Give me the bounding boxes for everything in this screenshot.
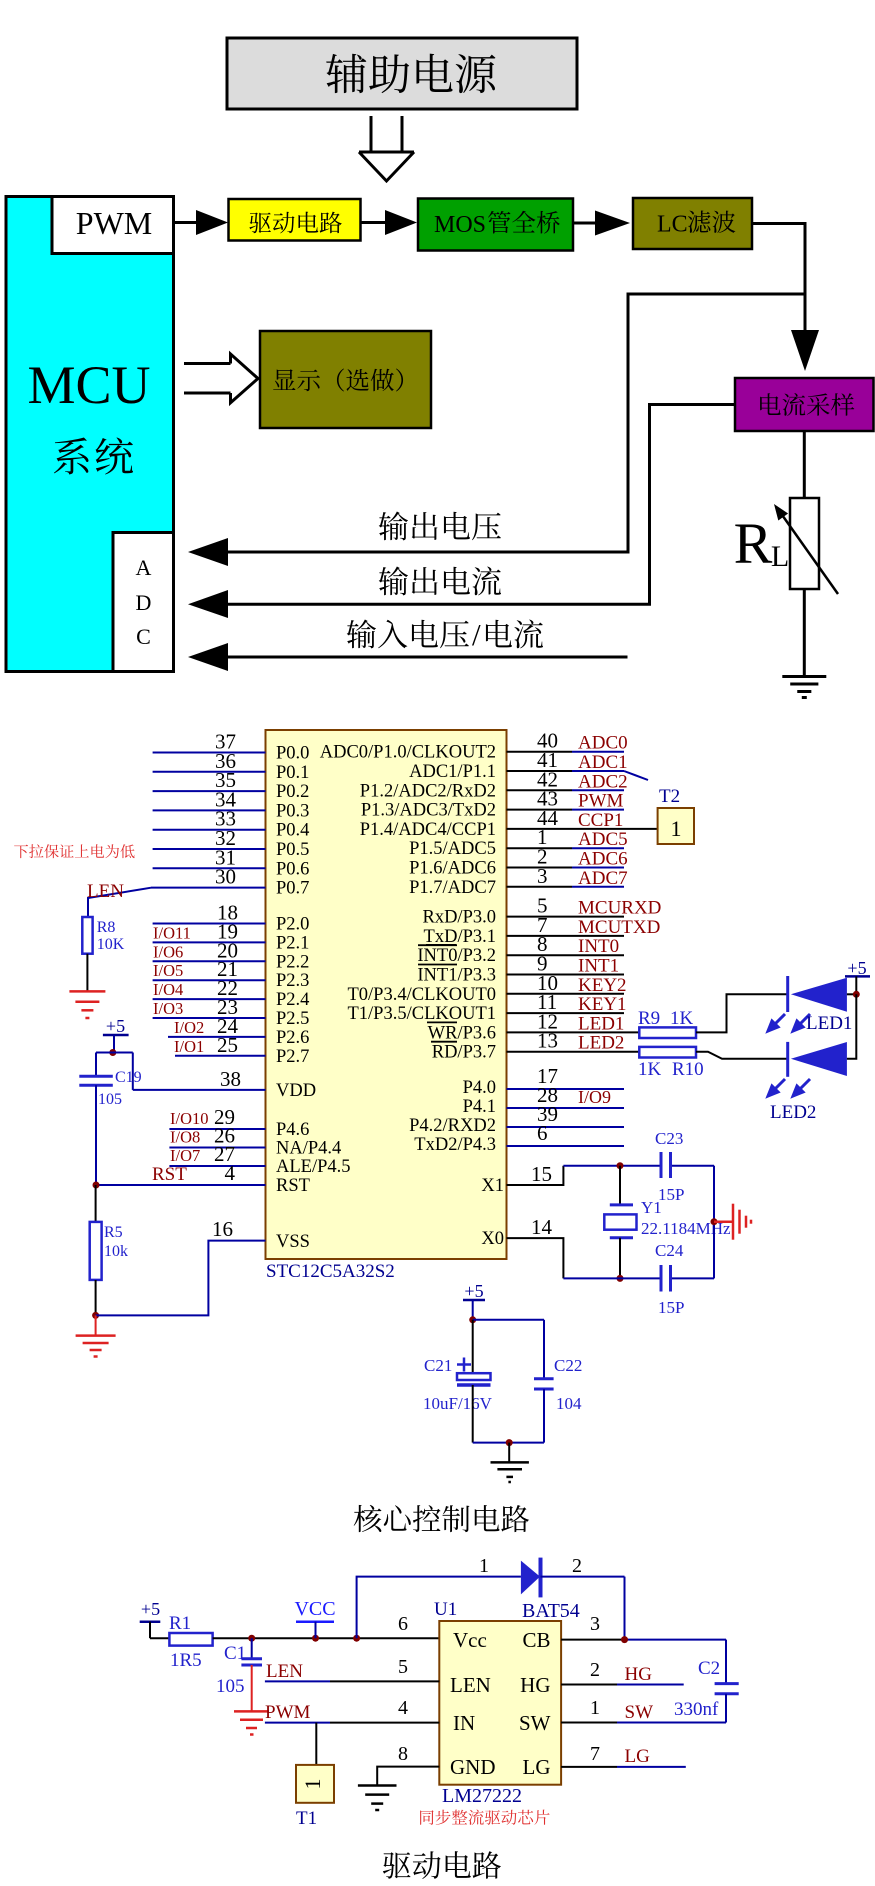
svg-text:P0.1: P0.1	[276, 763, 309, 783]
svg-text:P0.5: P0.5	[276, 840, 309, 860]
block MOS full bridge MOS管全桥	[418, 199, 573, 251]
wire R8 to ground	[86, 954, 88, 991]
svg-text:C1: C1	[224, 1643, 246, 1664]
svg-text:ADC6: ADC6	[578, 849, 628, 870]
wire crystal bottom rail	[563, 1277, 661, 1279]
red note 下拉保证上电为低	[14, 845, 28, 859]
wire LED2 anode to +5 rail	[847, 994, 856, 1059]
pin 21 P2.3 wire	[153, 979, 266, 981]
svg-text:15P: 15P	[658, 1298, 684, 1317]
svg-text:Y1: Y1	[641, 1198, 662, 1217]
block ADC	[113, 533, 174, 672]
red ground below C1	[234, 1710, 269, 1713]
svg-text:P2.2: P2.2	[276, 952, 309, 972]
resistor R8	[82, 917, 92, 954]
svg-text:I/O6: I/O6	[153, 942, 183, 961]
svg-text:+5: +5	[847, 958, 866, 978]
svg-text:Vcc: Vcc	[453, 1628, 487, 1652]
capacitor C24	[660, 1265, 663, 1292]
pin 27 ALE/P4.5 wire	[169, 1165, 265, 1167]
hollow arrow MCU to display	[184, 362, 231, 365]
pin 36 P0.1 wire	[153, 771, 266, 773]
svg-text:MOS: MOS	[434, 212, 486, 238]
svg-text:1: 1	[590, 1697, 600, 1719]
svg-text:I/O11: I/O11	[153, 923, 191, 942]
junction dot ground node	[92, 1312, 99, 1319]
svg-text:I/O10: I/O10	[170, 1109, 209, 1128]
svg-text:38: 38	[220, 1067, 241, 1091]
svg-text:T1/P3.5/CLKOUT1: T1/P3.5/CLKOUT1	[347, 1004, 496, 1024]
svg-text:+5: +5	[106, 1016, 125, 1036]
overline WR	[427, 1021, 457, 1023]
overline INT0	[418, 944, 457, 946]
pin 18 P2.0 wire	[153, 923, 266, 925]
svg-text:LED2: LED2	[770, 1102, 816, 1123]
svg-text:P2.7: P2.7	[276, 1047, 309, 1067]
wire +5 node branches	[96, 1052, 133, 1054]
svg-text:P1.7/ADC7: P1.7/ADC7	[409, 878, 496, 898]
feedback arrow output current 输出电流	[188, 590, 228, 618]
wire RL to ground	[803, 589, 806, 676]
svg-text:R5: R5	[104, 1224, 123, 1241]
wire crystal top rail	[563, 1165, 661, 1167]
wire output voltage	[224, 294, 805, 552]
svg-text:T0/P3.4/CLKOUT0: T0/P3.4/CLKOUT0	[347, 985, 496, 1005]
hollow down arrow from aux power	[370, 116, 373, 152]
svg-text:5: 5	[398, 1656, 408, 1678]
svg-text:P0.7: P0.7	[276, 879, 309, 899]
svg-text:R1: R1	[169, 1613, 191, 1634]
svg-text:1R5: 1R5	[170, 1650, 202, 1671]
svg-text:LED2: LED2	[578, 1033, 624, 1054]
svg-text:14: 14	[531, 1215, 553, 1239]
junction dot C21/C22 ground	[506, 1439, 513, 1446]
svg-text:15P: 15P	[658, 1185, 684, 1204]
solid down arrowhead into current sampling	[791, 330, 819, 371]
svg-text:1: 1	[479, 1555, 489, 1577]
svg-text:MCUTXD: MCUTXD	[578, 917, 660, 938]
wire crystal right rail	[713, 1166, 715, 1279]
svg-text:X0: X0	[481, 1229, 504, 1249]
svg-text:8: 8	[398, 1743, 408, 1765]
svg-text:330nf: 330nf	[674, 1699, 719, 1720]
svg-text:RD/P3.7: RD/P3.7	[432, 1043, 496, 1063]
svg-text:15: 15	[531, 1162, 552, 1186]
pin 33 P0.4 wire	[153, 829, 266, 831]
block current sampling 电流采样	[735, 378, 874, 431]
label 输出电压	[379, 512, 408, 541]
pin 29 P4.6 wire	[169, 1128, 265, 1130]
wire R9 to LED1	[696, 994, 788, 1032]
block PWM	[52, 197, 174, 254]
svg-text:X1: X1	[481, 1176, 504, 1196]
wire +5 to R1	[150, 1637, 169, 1639]
svg-text:10k: 10k	[104, 1243, 128, 1260]
junction dot LED +5	[853, 991, 860, 998]
svg-text:3: 3	[590, 1613, 600, 1635]
wire LEN to P0.7	[88, 888, 151, 917]
svg-text:P2.3: P2.3	[276, 971, 309, 991]
connector T1	[296, 1765, 334, 1803]
svg-text:I/O8: I/O8	[170, 1128, 200, 1147]
svg-text:LG: LG	[625, 1746, 651, 1767]
svg-text:SW: SW	[519, 1711, 551, 1735]
capacitor C23	[660, 1152, 663, 1178]
svg-text:INT1/P3.3: INT1/P3.3	[417, 966, 496, 986]
svg-text:P4.6: P4.6	[276, 1120, 309, 1140]
svg-text:TxD/P3.1: TxD/P3.1	[424, 927, 496, 947]
pin 8 GND wire	[377, 1767, 439, 1786]
svg-text:ADC2: ADC2	[578, 771, 628, 792]
MCU chip U-STC12C5A32S2 body	[266, 730, 507, 1259]
svg-text:4: 4	[398, 1697, 408, 1719]
capacitor C19	[79, 1075, 113, 1078]
junction dot VCC	[312, 1635, 319, 1642]
svg-text:ADC1: ADC1	[578, 752, 628, 773]
svg-text:BAT54: BAT54	[522, 1600, 580, 1622]
pin 24 P2.6 wire	[168, 1036, 266, 1038]
junction dot RST node	[93, 1182, 100, 1189]
svg-text:6: 6	[398, 1613, 408, 1635]
wire BAT54 to CB	[624, 1577, 626, 1640]
svg-text:I/O2: I/O2	[174, 1018, 204, 1037]
pin 7 LG wire	[561, 1766, 617, 1768]
svg-text:+5: +5	[141, 1599, 160, 1619]
svg-text:MCU: MCU	[27, 355, 150, 415]
svg-text:2: 2	[572, 1555, 582, 1577]
svg-text:P1.6/ADC6: P1.6/ADC6	[409, 859, 496, 879]
red ground sideways at crystal	[714, 1220, 733, 1223]
svg-text:P2.6: P2.6	[276, 1028, 309, 1048]
svg-text:INT0/P3.2: INT0/P3.2	[417, 946, 496, 966]
pin 16 VSS wire	[96, 1241, 266, 1316]
svg-text:1: 1	[671, 816, 682, 841]
svg-text:HG: HG	[625, 1664, 653, 1685]
ground below RL	[782, 675, 826, 678]
svg-text:2: 2	[590, 1659, 600, 1681]
svg-text:L: L	[771, 540, 789, 573]
wire C1 to red ground	[251, 1665, 253, 1711]
svg-text:T1: T1	[296, 1808, 317, 1829]
svg-text:WR/P3.6: WR/P3.6	[428, 1023, 496, 1043]
wire output current	[224, 405, 735, 605]
svg-text:LED1: LED1	[806, 1013, 852, 1034]
wire PWM to T1	[315, 1723, 317, 1765]
junction dot crystal bottom	[617, 1275, 624, 1282]
svg-text:P4.0: P4.0	[463, 1078, 496, 1098]
svg-text:P1.3/ADC3/TxD2: P1.3/ADC3/TxD2	[361, 801, 496, 821]
svg-text:P2.4: P2.4	[276, 990, 309, 1010]
svg-text:R9: R9	[638, 1008, 660, 1029]
block aux power supply 辅助电源	[227, 38, 577, 109]
svg-text:CCP1: CCP1	[578, 810, 623, 831]
svg-text:LG: LG	[523, 1755, 551, 1779]
svg-text:T2: T2	[659, 786, 680, 807]
svg-text:ADC7: ADC7	[578, 868, 628, 889]
arrow PWM to driver	[174, 221, 197, 224]
junction dot BAT54 branch	[353, 1635, 360, 1642]
block display optional 显示（选做）	[260, 331, 431, 428]
junction dot crystal right mid	[711, 1218, 718, 1225]
svg-text:P1.5/ADC5: P1.5/ADC5	[409, 839, 496, 859]
arrow MOS to LC filter	[573, 222, 595, 225]
junction dot C1	[248, 1635, 255, 1642]
ground below pin 8	[358, 1784, 397, 1787]
svg-text:A: A	[136, 555, 152, 580]
svg-text:7: 7	[590, 1743, 600, 1765]
svg-text:I/O1: I/O1	[174, 1037, 204, 1056]
junction dot crystal top	[617, 1162, 624, 1169]
svg-text:10K: 10K	[97, 936, 125, 953]
feedback arrow input voltage/current 输入电压/电流	[188, 643, 228, 671]
red ground below R8	[69, 990, 105, 993]
pin 4 RST wire	[96, 1184, 266, 1186]
crystal Y1	[619, 1166, 621, 1205]
svg-text:1K: 1K	[638, 1059, 662, 1080]
svg-text:P0.3: P0.3	[276, 801, 309, 821]
pin 22 P2.4 wire	[153, 998, 266, 1000]
svg-text:I/O4: I/O4	[153, 980, 183, 999]
pin 20 P2.2 wire	[153, 960, 266, 962]
svg-text:P2.0: P2.0	[276, 915, 309, 935]
svg-text:13: 13	[537, 1029, 558, 1053]
svg-text:VSS: VSS	[276, 1232, 310, 1252]
junction dot +5/C19	[109, 1049, 116, 1056]
svg-text:C24: C24	[655, 1241, 684, 1260]
wire current sampling to load RL	[803, 431, 806, 498]
svg-text:INT1: INT1	[578, 956, 619, 977]
wire C19 to RST node	[95, 1085, 97, 1185]
svg-text:ALE/P4.5: ALE/P4.5	[276, 1157, 351, 1177]
svg-text:PWM: PWM	[76, 205, 152, 241]
svg-text:104: 104	[556, 1394, 582, 1413]
block MCU system MCU系统	[6, 197, 174, 672]
pin 19 P2.1 wire	[153, 941, 266, 943]
svg-text:INT0: INT0	[578, 936, 619, 957]
svg-text:ADC0: ADC0	[578, 733, 628, 754]
svg-text:VDD: VDD	[276, 1081, 316, 1101]
wire input voltage/current	[224, 656, 628, 659]
wire C21/C22 bottom rail	[473, 1442, 544, 1444]
svg-text:LEN: LEN	[450, 1673, 491, 1697]
wire C21/C22 top rail	[473, 1319, 544, 1321]
svg-text:LED1: LED1	[578, 1013, 624, 1034]
pin 2 HG wire	[561, 1684, 617, 1686]
svg-text:25: 25	[217, 1033, 238, 1057]
label 输出电流	[379, 567, 408, 596]
svg-text:MCURXD: MCURXD	[578, 898, 661, 919]
wire to BAT54 diode	[357, 1577, 521, 1639]
svg-text:R10: R10	[672, 1059, 704, 1080]
svg-text:1: 1	[300, 1779, 325, 1790]
resistor R5	[95, 1185, 97, 1222]
svg-text:P0.6: P0.6	[276, 859, 309, 879]
svg-text:/: /	[472, 617, 481, 652]
caption 核心控制电路	[354, 1505, 382, 1532]
svg-text:RxD/P3.0: RxD/P3.0	[422, 908, 496, 928]
svg-text:KEY1: KEY1	[578, 994, 627, 1015]
svg-text:R: R	[734, 511, 773, 576]
svg-text:105: 105	[98, 1091, 122, 1108]
load resistor RL (variable)	[790, 498, 819, 589]
pin 25 P2.7 wire	[175, 1055, 266, 1057]
svg-text:SW: SW	[625, 1702, 654, 1723]
overline TxD	[426, 944, 456, 946]
pin 32 P0.5 wire	[153, 848, 266, 850]
pin 30 P0.7 wire	[151, 887, 266, 889]
svg-text:LC: LC	[657, 212, 688, 238]
ground below C21/C22	[508, 1443, 510, 1463]
svg-text:30: 30	[215, 865, 236, 889]
wire R5 to ground node	[95, 1280, 97, 1315]
pin 34 P0.3 wire	[153, 809, 266, 811]
svg-text:KEY2: KEY2	[578, 975, 627, 996]
svg-text:CB: CB	[522, 1628, 550, 1652]
svg-text:VCC: VCC	[294, 1598, 335, 1620]
svg-text:6: 6	[537, 1121, 548, 1145]
pin 35 P0.2 wire	[153, 790, 266, 792]
svg-text:10uF/16V: 10uF/16V	[423, 1394, 493, 1413]
svg-text:C2: C2	[698, 1658, 720, 1679]
svg-text:PWM: PWM	[265, 1702, 311, 1723]
svg-text:P1.2/ADC2/RxD2: P1.2/ADC2/RxD2	[360, 781, 496, 801]
pin 23 P2.5 wire	[153, 1017, 266, 1019]
wire R1 to U1 Vcc	[213, 1637, 440, 1639]
svg-text:P4.2/RXD2: P4.2/RXD2	[409, 1116, 496, 1136]
pin 3 CB wire	[561, 1639, 624, 1641]
svg-text:LEN: LEN	[266, 1661, 303, 1682]
svg-text:P2.1: P2.1	[276, 933, 309, 953]
svg-text:3: 3	[537, 864, 548, 888]
svg-text:GND: GND	[450, 1755, 496, 1779]
LED1 emission arrows	[768, 1014, 810, 1031]
LED2 emission arrows	[768, 1079, 810, 1096]
pin 1 SW wire	[561, 1722, 617, 1724]
svg-text:I/O3: I/O3	[153, 999, 183, 1018]
kink wire under ADC1	[624, 771, 648, 780]
svg-text:I/O9: I/O9	[578, 1087, 611, 1107]
svg-text:PWM: PWM	[578, 791, 624, 812]
svg-text:P0.2: P0.2	[276, 782, 309, 802]
svg-text:P0.4: P0.4	[276, 821, 309, 841]
svg-text:4: 4	[225, 1161, 236, 1185]
resistor R10	[639, 1047, 696, 1058]
svg-text:STC12C5A32S2: STC12C5A32S2	[266, 1261, 395, 1282]
svg-text:R8: R8	[97, 919, 116, 936]
block LC filter LC滤波	[633, 198, 752, 249]
pin 37 P0.0 wire	[153, 752, 266, 754]
svg-text:U1: U1	[434, 1599, 457, 1620]
caption 驱动电路	[383, 1852, 411, 1879]
label 输入电压/电流	[347, 620, 376, 649]
junction dot C21 top	[469, 1316, 476, 1323]
arrow driver to MOS bridge	[361, 221, 386, 224]
wire R10 to LED2	[696, 1052, 788, 1059]
LED LED2	[786, 1042, 789, 1077]
pin 26 NA/P4.4 wire	[169, 1147, 265, 1149]
svg-text:ADC5: ADC5	[578, 829, 628, 850]
svg-text:NA/P4.4: NA/P4.4	[276, 1139, 341, 1159]
red note 同步整流驱动芯片	[420, 1810, 434, 1825]
svg-text:P4.1: P4.1	[463, 1097, 496, 1117]
wire LC filter output to current sampling	[752, 224, 805, 331]
pin 31 P0.6 wire	[153, 867, 266, 869]
svg-text:C23: C23	[655, 1129, 683, 1148]
svg-text:LM27222: LM27222	[442, 1785, 522, 1807]
block driver circuit 驱动电路	[229, 199, 361, 241]
svg-text:P1.4/ADC4/CCP1: P1.4/ADC4/CCP1	[360, 820, 496, 840]
svg-text:HG: HG	[520, 1673, 550, 1697]
svg-text:I/O5: I/O5	[153, 961, 183, 980]
svg-text:ADC1/P1.1: ADC1/P1.1	[409, 762, 496, 782]
svg-text:C: C	[136, 624, 151, 649]
svg-text:1K: 1K	[670, 1008, 694, 1029]
svg-text:RST: RST	[152, 1164, 187, 1185]
feedback arrow output voltage 输出电压	[188, 538, 228, 566]
svg-text:I/O7: I/O7	[170, 1146, 200, 1165]
svg-text:LEN: LEN	[87, 881, 124, 902]
overline RD	[431, 1041, 457, 1043]
svg-text:P2.5: P2.5	[276, 1009, 309, 1029]
svg-text:RST: RST	[276, 1176, 310, 1196]
svg-text:ADC0/P1.0/CLKOUT2: ADC0/P1.0/CLKOUT2	[320, 743, 496, 763]
junction dot CB	[621, 1636, 628, 1643]
svg-text:P0.0: P0.0	[276, 744, 309, 764]
wire LED1 anode to +5	[847, 993, 856, 995]
svg-text:+5: +5	[464, 1281, 483, 1301]
svg-text:C19: C19	[115, 1069, 142, 1086]
svg-text:D: D	[136, 590, 152, 615]
pin 38 VDD wire	[133, 1089, 266, 1091]
LED LED1	[786, 976, 789, 1012]
svg-text:16: 16	[212, 1217, 233, 1241]
red ground below R5	[95, 1315, 97, 1335]
svg-text:C21: C21	[424, 1356, 452, 1375]
overline INT1	[418, 964, 457, 966]
svg-text:C22: C22	[554, 1356, 582, 1375]
svg-text:TxD2/P4.3: TxD2/P4.3	[414, 1135, 496, 1155]
diode BAT54	[521, 1561, 540, 1595]
svg-text:IN: IN	[453, 1711, 475, 1735]
svg-text:105: 105	[216, 1676, 245, 1697]
